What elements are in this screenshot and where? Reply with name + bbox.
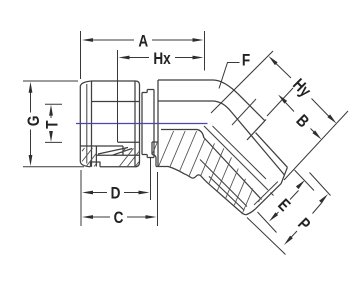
arrows P bbox=[283, 236, 293, 247]
arrows C bbox=[82, 215, 93, 219]
hatch nut left bbox=[82, 148, 96, 167]
body top edge with outer corner arc bbox=[158, 80, 265, 121]
bottom-left step near ring bbox=[152, 142, 159, 167]
body hex left edge bbox=[157, 80, 159, 167]
D right extension bbox=[150, 157, 152, 200]
blue centerline horizontal bbox=[76, 123, 208, 125]
hex-start tangent line bbox=[232, 99, 256, 125]
P dim line bbox=[290, 203, 322, 239]
C dim line bbox=[93, 216, 147, 218]
centerline of angled port (45deg) bbox=[204, 126, 274, 196]
svg-text:A: A bbox=[138, 32, 148, 51]
end face bbox=[256, 184, 282, 209]
arrows E bbox=[268, 212, 278, 222]
arrows B bbox=[277, 93, 287, 103]
thread OD line bbox=[209, 176, 244, 210]
svg-text:D: D bbox=[111, 184, 121, 203]
svg-text:G: G bbox=[25, 116, 44, 127]
E dim line bbox=[275, 191, 299, 216]
upper bore line of angled port bbox=[213, 126, 267, 179]
hatch nut right bbox=[119, 147, 139, 166]
Hx extension bbox=[117, 50, 119, 142]
A extensions bbox=[81, 31, 205, 79]
nut hex flat edge bbox=[91, 81, 93, 167]
arrows A bbox=[82, 38, 93, 42]
F leader bbox=[219, 63, 240, 89]
D dim line bbox=[93, 192, 140, 194]
C right extension bbox=[157, 172, 159, 226]
G dim line bbox=[30, 91, 32, 157]
svg-text:B: B bbox=[292, 111, 312, 131]
E extensions bbox=[258, 170, 315, 233]
T dim line stubs bbox=[50, 114, 52, 135]
P extensions bbox=[247, 173, 331, 255]
thread root line bbox=[200, 160, 247, 207]
tip chamfer upper bbox=[281, 167, 287, 183]
arrows T bbox=[49, 105, 53, 116]
Hy/B far extension bbox=[284, 111, 348, 180]
lower back face with wavy flat bbox=[156, 167, 246, 215]
svg-text:E: E bbox=[274, 196, 294, 216]
arrows D bbox=[82, 191, 93, 195]
hatch body wedge bbox=[152, 131, 260, 213]
body hex inner line, bends into 45-deg hex corner line bbox=[158, 101, 285, 175]
end face inner line bbox=[254, 182, 278, 205]
arrows G bbox=[29, 82, 33, 93]
thread upper edge bbox=[256, 133, 288, 168]
T ticks bbox=[45, 104, 62, 142]
shoulder step bbox=[247, 120, 266, 141]
G extensions bbox=[23, 81, 84, 167]
Hy near extension bbox=[211, 51, 273, 113]
svg-text:Hx: Hx bbox=[153, 50, 171, 69]
bore line horizontal, bending into angled bore bbox=[161, 130, 262, 200]
arrows Hx bbox=[119, 56, 130, 60]
D/C left extension bbox=[80, 170, 82, 226]
B dim line bbox=[286, 103, 315, 133]
svg-text:F: F bbox=[242, 51, 250, 70]
svg-text:Hy: Hy bbox=[289, 75, 315, 101]
nut inner right edge bbox=[134, 81, 136, 167]
A dim line bbox=[92, 39, 194, 41]
nut hex flat line bbox=[92, 101, 139, 103]
nut face ring edge bbox=[86, 84, 88, 164]
arrows Hy bbox=[267, 55, 277, 65]
B shoulder extension bbox=[267, 88, 293, 116]
svg-text:C: C bbox=[114, 209, 124, 228]
tip lower hook bbox=[246, 209, 256, 215]
nut bottom notch bbox=[91, 162, 101, 167]
tube end and ferrules (section) bbox=[80, 142, 140, 166]
ring between nut and body (two steps) bbox=[142, 90, 154, 158]
svg-text:T: T bbox=[43, 120, 62, 129]
Hy dim line bbox=[276, 64, 329, 117]
Hx dim line bbox=[129, 57, 194, 59]
nut outline bbox=[80, 81, 139, 167]
